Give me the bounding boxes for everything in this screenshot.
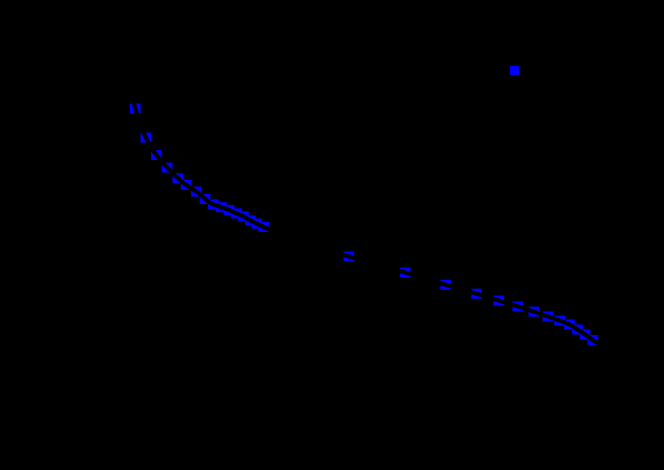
legend marker square <box>510 66 519 75</box>
data series: blue square markers <box>130 104 598 346</box>
model curve line (black, drawn over markers) <box>130 77 616 354</box>
